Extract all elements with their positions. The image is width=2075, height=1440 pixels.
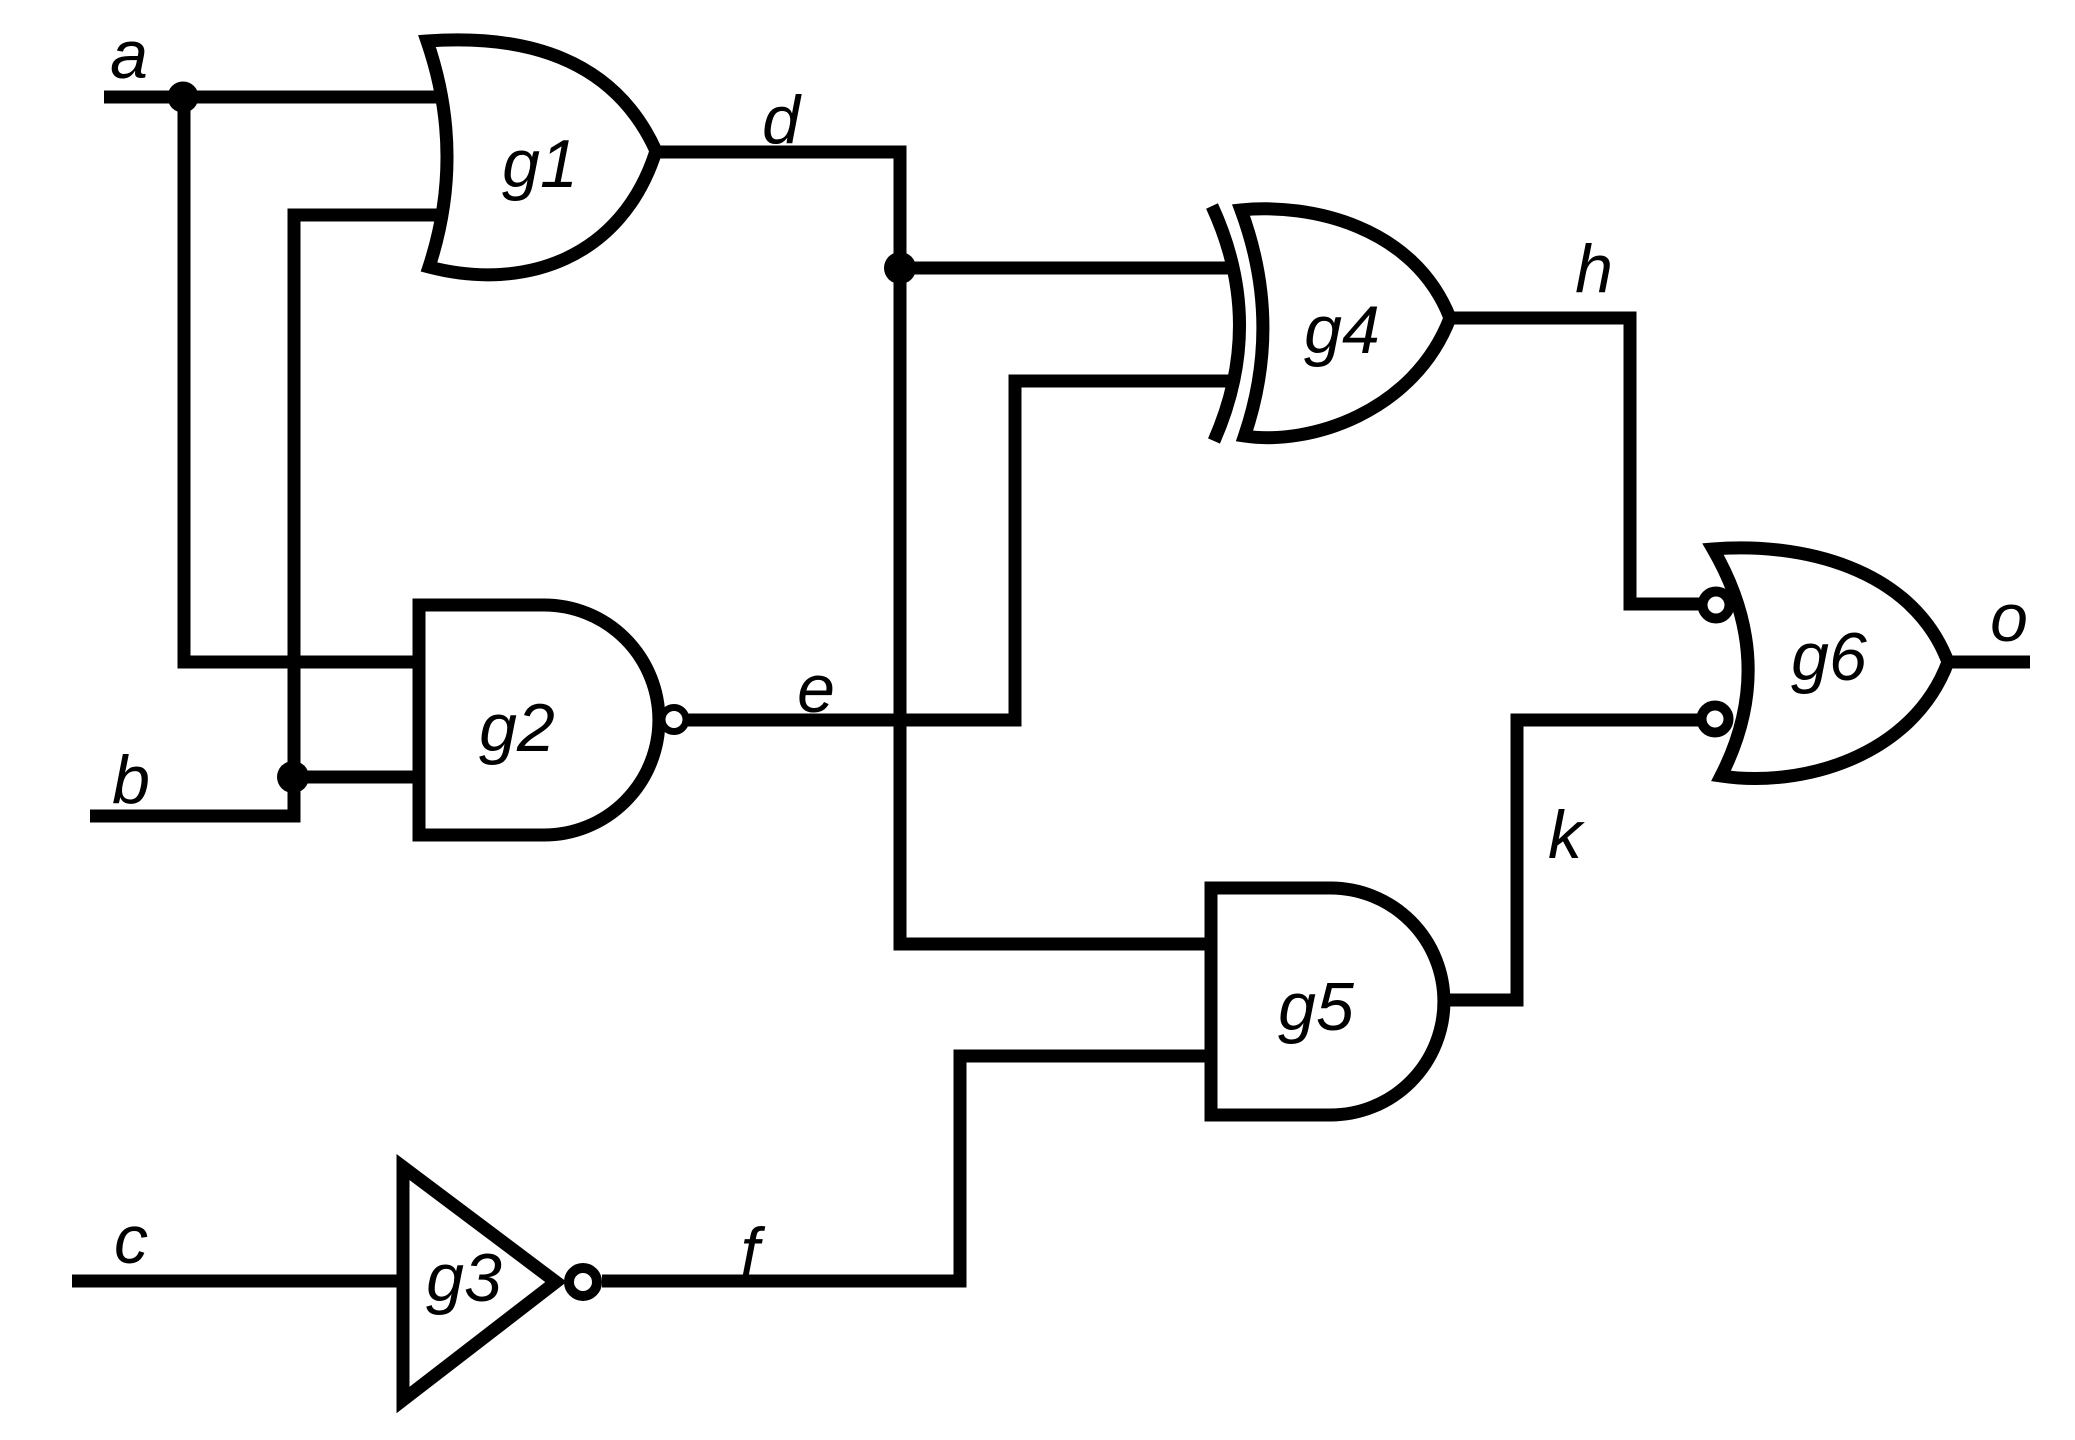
g6 lower input bubble bbox=[1702, 706, 1729, 733]
node a junction dot bbox=[168, 82, 199, 113]
wire k from g5 output up to g6 lower input bbox=[1444, 720, 1702, 1000]
wire e from g2 output up to g4 lower input bbox=[688, 381, 1230, 720]
node b junction dot bbox=[277, 761, 309, 793]
svg-text:h: h bbox=[1575, 231, 1613, 307]
wire d branch to g4 top input bbox=[900, 262, 1230, 275]
svg-text:g4: g4 bbox=[1304, 292, 1380, 368]
wire a vertical branch down to g2 top input bbox=[184, 97, 419, 662]
wire c horizontal into g3 bbox=[72, 1275, 399, 1288]
wire d from g1 output down to g5 top input bbox=[655, 152, 1211, 944]
svg-text:e: e bbox=[797, 651, 835, 727]
svg-text:g3: g3 bbox=[426, 1240, 502, 1316]
svg-text:k: k bbox=[1548, 797, 1585, 873]
g4 input side detached arc bbox=[1212, 206, 1240, 441]
g3 output bubble bbox=[569, 1268, 597, 1296]
svg-text:b: b bbox=[112, 742, 150, 818]
svg-text:g1: g1 bbox=[502, 126, 578, 202]
wire o from g6 output bbox=[1947, 656, 2030, 669]
wire a horizontal into g1 top input bbox=[104, 91, 441, 104]
svg-text:o: o bbox=[1990, 580, 2028, 656]
svg-text:d: d bbox=[762, 82, 802, 158]
svg-text:g6: g6 bbox=[1791, 619, 1867, 695]
g6 top input bubble bbox=[1703, 592, 1730, 619]
svg-text:g5: g5 bbox=[1278, 969, 1354, 1045]
wire b branch to g2 lower input bbox=[294, 771, 419, 784]
nand-gate g2 bbox=[419, 605, 686, 835]
wire f from g3 output up to g5 lower input bbox=[602, 1056, 1211, 1281]
svg-text:c: c bbox=[114, 1202, 148, 1278]
and-gate g5 bbox=[1211, 888, 1444, 1115]
xor-gate g4 bbox=[1212, 206, 1450, 441]
g2 output bubble bbox=[662, 708, 686, 732]
svg-text:a: a bbox=[110, 17, 148, 93]
nor-style gate g6 with input bubbles bbox=[1702, 548, 1949, 779]
wire b horizontal, vertical branch up to g1 lower input bbox=[90, 215, 442, 816]
node d junction dot bbox=[884, 252, 916, 284]
svg-text:g2: g2 bbox=[479, 690, 555, 766]
or-gate g1 bbox=[427, 40, 656, 275]
not-gate g3 bbox=[403, 1167, 597, 1400]
wire h from g4 output down to g6 top input bbox=[1449, 318, 1703, 604]
